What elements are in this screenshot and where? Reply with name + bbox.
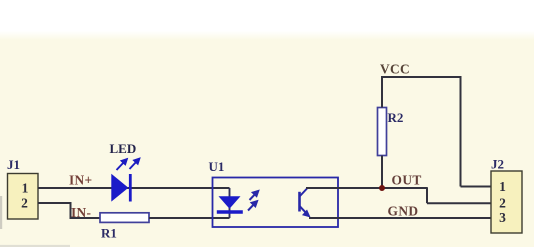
wire U1 collector to OUT junction <box>306 187 428 189</box>
svg-text:VCC: VCC <box>380 62 410 77</box>
U1 light arrow 1 <box>250 190 260 200</box>
U1 light arrow 2 <box>248 201 258 211</box>
U1 internal diode triangle <box>219 196 241 209</box>
wire R2 bottom to junction <box>381 156 383 190</box>
edge artifact bottom <box>0 245 70 247</box>
wire VCC rail vertical <box>460 77 462 187</box>
connector J1 <box>7 157 38 219</box>
LED arrow 2 <box>130 158 141 169</box>
svg-text:IN+: IN+ <box>69 172 92 187</box>
svg-text:1: 1 <box>499 179 506 194</box>
wire R1 to U1 cathode <box>149 217 230 219</box>
wire to R1 left <box>71 217 101 219</box>
wire R2 top to VCC rail <box>381 76 383 108</box>
svg-text:2: 2 <box>21 196 28 211</box>
svg-text:3: 3 <box>499 210 506 225</box>
svg-text:1: 1 <box>22 181 29 196</box>
svg-text:R2: R2 <box>388 110 404 125</box>
svg-text:R1: R1 <box>101 226 117 241</box>
transistor Q (U1) base bar <box>298 192 301 212</box>
wire J1 pin2 horizontal <box>38 202 72 204</box>
transistor emitter diagonal with arrow <box>300 206 310 217</box>
junction OUT node <box>379 185 385 191</box>
svg-text:GND: GND <box>388 203 419 218</box>
LED cathode bar <box>129 174 132 202</box>
LED arrow 1 <box>117 159 128 171</box>
LED diode triangle <box>112 175 128 201</box>
connector J2 <box>491 157 522 234</box>
wire VCC rail horizontal <box>381 76 462 78</box>
svg-text:J2: J2 <box>491 157 504 172</box>
wire U1 emitter to J2 pin3 (GND net) <box>309 217 491 219</box>
edge artifact left <box>0 196 2 229</box>
resistor R2 <box>378 108 404 156</box>
wire OUT to J2 pin2 <box>427 202 491 204</box>
wire J1 pin1 to U1 anode (IN+ net) <box>38 187 230 189</box>
wire VCC to J2 pin1 <box>461 186 492 188</box>
svg-text:J1: J1 <box>7 157 20 172</box>
transistor collector diagonal <box>300 189 308 197</box>
wire J1 pin2 vertical drop <box>70 202 72 219</box>
U1 internal diode cathode bar <box>217 210 243 213</box>
resistor R1 <box>100 213 149 241</box>
svg-text:OUT: OUT <box>392 172 422 187</box>
svg-text:2: 2 <box>499 196 506 211</box>
svg-text:U1: U1 <box>209 159 225 174</box>
U1 internal diode lead <box>229 188 231 218</box>
wire OUT vertical drop <box>426 188 428 203</box>
svg-text:LED: LED <box>110 141 137 156</box>
op-amp U1 optocoupler body <box>213 178 339 228</box>
